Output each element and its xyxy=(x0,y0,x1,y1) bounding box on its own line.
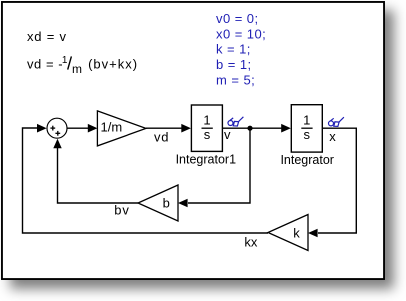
svg-text:k: k xyxy=(293,226,300,241)
svg-text:xd = v: xd = v xyxy=(27,29,67,44)
svg-text:1/m: 1/m xyxy=(101,120,123,135)
svg-text:Integrator: Integrator xyxy=(280,153,334,167)
svg-text:s: s xyxy=(304,127,311,142)
svg-text:b: b xyxy=(163,196,170,211)
svg-text:v: v xyxy=(224,127,231,142)
svg-text:m: m xyxy=(72,62,83,76)
svg-text:1: 1 xyxy=(62,55,68,66)
svg-text:bv: bv xyxy=(114,202,129,217)
svg-text:m = 5;: m = 5; xyxy=(216,72,255,87)
svg-text:x0 = 10;: x0 = 10; xyxy=(216,26,266,41)
svg-text:v0 = 0;: v0 = 0; xyxy=(216,11,259,26)
svg-text:(bv+kx): (bv+kx) xyxy=(88,57,138,72)
svg-text:k = 1;: k = 1; xyxy=(216,42,251,57)
svg-text:Integrator1: Integrator1 xyxy=(176,153,237,167)
svg-text:kx: kx xyxy=(244,235,258,250)
svg-text:x: x xyxy=(329,129,336,144)
svg-text:1: 1 xyxy=(303,112,310,127)
svg-text:b = 1;: b = 1; xyxy=(216,57,252,72)
svg-text:1: 1 xyxy=(203,112,210,127)
svg-text:vd = -: vd = - xyxy=(27,57,63,72)
svg-text:s: s xyxy=(204,127,211,142)
svg-text:vd: vd xyxy=(154,130,169,145)
